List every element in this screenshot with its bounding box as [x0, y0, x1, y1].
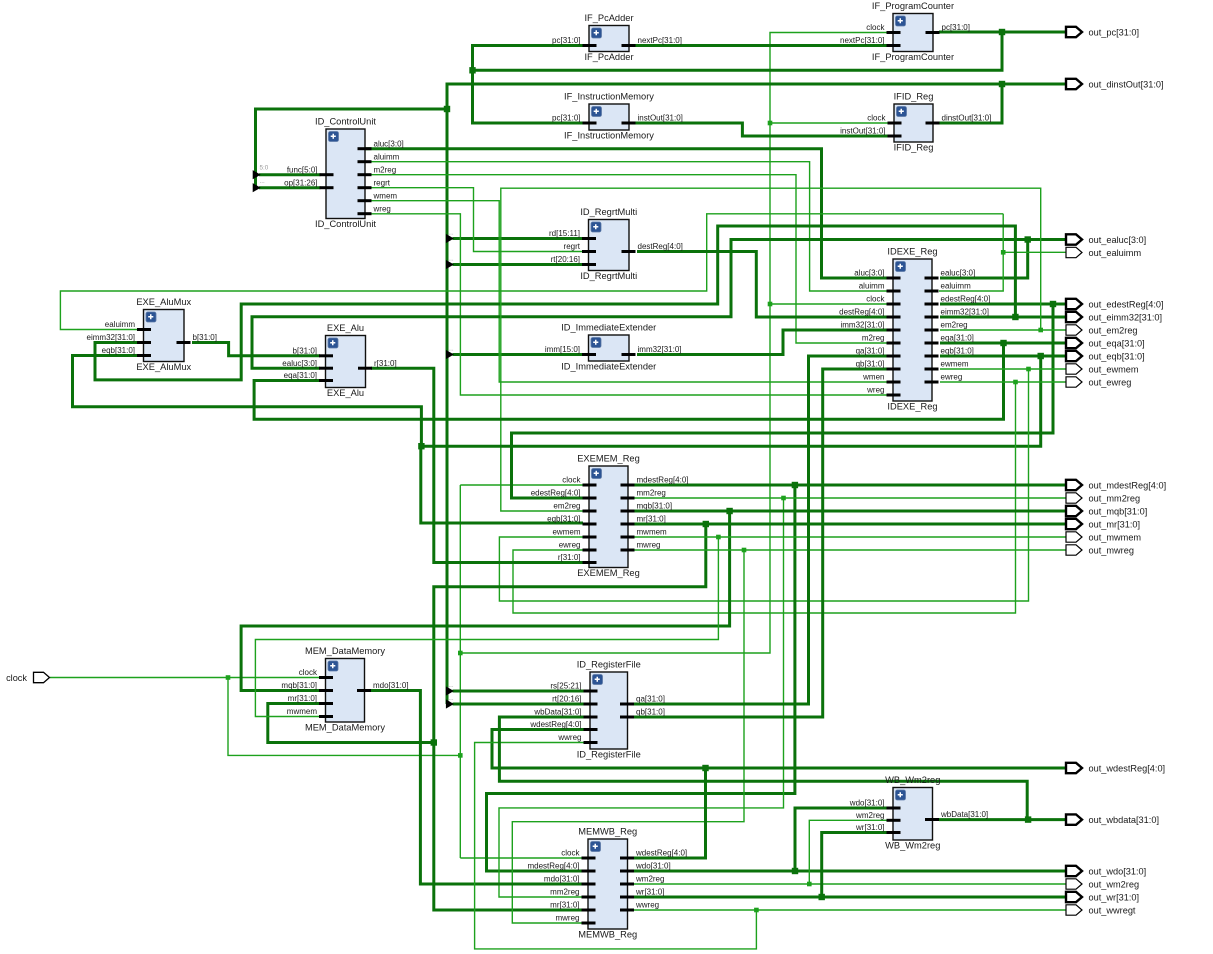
svg-text:em2reg: em2reg	[553, 502, 580, 511]
svg-text:mwmem: mwmem	[287, 707, 318, 716]
svg-text:nextPc[31:0]: nextPc[31:0]	[840, 36, 884, 45]
svg-text:qa[31:0]: qa[31:0]	[636, 695, 665, 704]
svg-text:mm2reg: mm2reg	[550, 888, 579, 897]
svg-text:IF_InstructionMemory: IF_InstructionMemory	[564, 92, 654, 102]
svg-text:out_ealuc[3:0]: out_ealuc[3:0]	[1089, 235, 1147, 245]
svg-text:eqb[31:0]: eqb[31:0]	[547, 515, 580, 524]
svg-text:m2reg: m2reg	[862, 334, 885, 343]
svg-text:mm2reg: mm2reg	[637, 489, 666, 498]
svg-text:instOut[31:0]: instOut[31:0]	[840, 127, 885, 136]
svg-text:...: ...	[448, 255, 453, 262]
svg-text:ewmem: ewmem	[941, 360, 969, 369]
svg-text:rs[25:21]: rs[25:21]	[550, 682, 581, 691]
svg-text:out_wr[31:0]: out_wr[31:0]	[1089, 892, 1140, 902]
svg-text:mr[31:0]: mr[31:0]	[637, 515, 666, 524]
svg-text:edestReg[4:0]: edestReg[4:0]	[941, 295, 991, 304]
svg-text:...: ...	[448, 682, 453, 689]
svg-text:rd[15:11]: rd[15:11]	[549, 229, 580, 238]
svg-text:qb[31:0]: qb[31:0]	[856, 360, 885, 369]
svg-text:wmem: wmem	[373, 191, 398, 200]
svg-text:r[31:0]: r[31:0]	[558, 553, 581, 562]
svg-text:aluc[3:0]: aluc[3:0]	[854, 269, 884, 278]
svg-text:...: ...	[260, 178, 265, 185]
svg-text:ewmem: ewmem	[552, 528, 580, 537]
svg-text:m2reg: m2reg	[374, 165, 397, 174]
svg-text:...: ...	[448, 229, 453, 236]
svg-text:out_mqb[31:0]: out_mqb[31:0]	[1089, 506, 1148, 516]
svg-text:mr[31:0]: mr[31:0]	[550, 901, 579, 910]
svg-text:wbData[31:0]: wbData[31:0]	[940, 810, 988, 819]
svg-text:EXE_AluMux: EXE_AluMux	[136, 297, 191, 307]
svg-text:WB_Wm2reg: WB_Wm2reg	[885, 841, 940, 851]
svg-text:regrt: regrt	[564, 242, 581, 251]
svg-text:wdo[31:0]: wdo[31:0]	[849, 799, 885, 808]
svg-text:out_mr[31:0]: out_mr[31:0]	[1089, 519, 1141, 529]
svg-text:instOut[31:0]: instOut[31:0]	[638, 114, 683, 123]
svg-text:5:0: 5:0	[260, 165, 269, 172]
svg-text:out_wdo[31:0]: out_wdo[31:0]	[1089, 866, 1147, 876]
svg-text:...: ...	[448, 695, 453, 702]
svg-text:ealuc[3:0]: ealuc[3:0]	[941, 269, 976, 278]
svg-text:wdestReg[4:0]: wdestReg[4:0]	[635, 849, 687, 858]
svg-text:clock: clock	[562, 476, 581, 485]
svg-text:IF_InstructionMemory: IF_InstructionMemory	[564, 131, 654, 141]
svg-text:wmen: wmen	[862, 373, 884, 382]
svg-text:wdo[31:0]: wdo[31:0]	[635, 862, 671, 871]
svg-text:wdestReg[4:0]: wdestReg[4:0]	[529, 720, 581, 729]
svg-text:ID_RegisterFile: ID_RegisterFile	[577, 750, 641, 760]
svg-text:mdo[31:0]: mdo[31:0]	[373, 681, 409, 690]
svg-text:clock: clock	[299, 668, 318, 677]
svg-text:IFID_Reg: IFID_Reg	[894, 92, 934, 102]
svg-text:IDEXE_Reg: IDEXE_Reg	[887, 247, 937, 257]
svg-text:pc[31:0]: pc[31:0]	[942, 23, 970, 32]
svg-text:clock: clock	[6, 673, 27, 683]
svg-text:ID_ImmediateExtender: ID_ImmediateExtender	[561, 362, 656, 372]
svg-text:out_mdestReg[4:0]: out_mdestReg[4:0]	[1089, 480, 1167, 490]
svg-text:out_eimm32[31:0]: out_eimm32[31:0]	[1089, 312, 1163, 322]
svg-text:rt[20:16]: rt[20:16]	[552, 695, 581, 704]
svg-text:aluimm: aluimm	[374, 152, 400, 161]
svg-text:ID_ImmediateExtender: ID_ImmediateExtender	[561, 323, 656, 333]
svg-text:aluimm: aluimm	[859, 282, 885, 291]
svg-text:nextPc[31:0]: nextPc[31:0]	[638, 36, 682, 45]
svg-text:mdo[31:0]: mdo[31:0]	[544, 875, 580, 884]
svg-text:MEM_DataMemory: MEM_DataMemory	[305, 723, 385, 733]
svg-text:EXE_Alu: EXE_Alu	[327, 388, 364, 398]
svg-text:out_wm2reg: out_wm2reg	[1089, 879, 1140, 889]
svg-text:IF_PcAdder: IF_PcAdder	[584, 52, 633, 62]
svg-text:EXE_Alu: EXE_Alu	[327, 323, 364, 333]
svg-text:imm32[31:0]: imm32[31:0]	[840, 321, 884, 330]
svg-text:out_mm2reg: out_mm2reg	[1089, 493, 1141, 503]
svg-text:pc[31:0]: pc[31:0]	[552, 114, 580, 123]
svg-text:out_dinstOut[31:0]: out_dinstOut[31:0]	[1089, 79, 1164, 89]
svg-text:IF_ProgramCounter: IF_ProgramCounter	[872, 1, 954, 11]
svg-text:wm2reg: wm2reg	[635, 875, 664, 884]
svg-text:MEMWB_Reg: MEMWB_Reg	[578, 827, 637, 837]
svg-text:wreg: wreg	[866, 386, 884, 395]
svg-text:EXE_AluMux: EXE_AluMux	[136, 362, 191, 372]
svg-text:pc[31:0]: pc[31:0]	[552, 36, 580, 45]
svg-text:mqb[31:0]: mqb[31:0]	[637, 502, 673, 511]
svg-text:eqa[31:0]: eqa[31:0]	[284, 371, 317, 380]
svg-text:ewreg: ewreg	[559, 541, 581, 550]
svg-text:IF_PcAdder: IF_PcAdder	[584, 13, 633, 23]
svg-text:em2reg: em2reg	[941, 321, 968, 330]
svg-text:MEM_DataMemory: MEM_DataMemory	[305, 646, 385, 656]
svg-text:edestReg[4:0]: edestReg[4:0]	[531, 489, 581, 498]
svg-text:wreg: wreg	[373, 204, 391, 213]
svg-text:IFID_Reg: IFID_Reg	[894, 143, 934, 153]
svg-text:clock: clock	[867, 114, 886, 123]
svg-text:out_pc[31:0]: out_pc[31:0]	[1089, 27, 1140, 37]
svg-text:clock: clock	[866, 295, 885, 304]
svg-text:out_eqb[31:0]: out_eqb[31:0]	[1089, 351, 1145, 361]
svg-text:ealuc[3:0]: ealuc[3:0]	[282, 359, 317, 368]
svg-text:out_em2reg: out_em2reg	[1089, 325, 1138, 335]
svg-text:eqb[31:0]: eqb[31:0]	[102, 346, 135, 355]
svg-text:ealuimm: ealuimm	[941, 282, 972, 291]
svg-text:imm[15:0]: imm[15:0]	[545, 345, 580, 354]
svg-text:out_ealuimm: out_ealuimm	[1089, 248, 1142, 258]
svg-text:clock: clock	[561, 849, 580, 858]
svg-text:EXEMEM_Reg: EXEMEM_Reg	[577, 568, 640, 578]
svg-text:imm32[31:0]: imm32[31:0]	[638, 345, 682, 354]
svg-text:qa[31:0]: qa[31:0]	[856, 347, 885, 356]
svg-text:MEMWB_Reg: MEMWB_Reg	[578, 930, 637, 940]
svg-text:mwreg: mwreg	[637, 541, 661, 550]
svg-text:out_wbdata[31:0]: out_wbdata[31:0]	[1089, 815, 1160, 825]
svg-text:ID_ControlUnit: ID_ControlUnit	[315, 219, 376, 229]
svg-text:out_mwreg: out_mwreg	[1089, 545, 1134, 555]
svg-text:ID_RegisterFile: ID_RegisterFile	[577, 660, 641, 670]
svg-text:EXEMEM_Reg: EXEMEM_Reg	[577, 454, 640, 464]
svg-text:eimm32[31:0]: eimm32[31:0]	[941, 308, 989, 317]
svg-text:func[5:0]: func[5:0]	[287, 165, 318, 174]
svg-text:mr[31:0]: mr[31:0]	[288, 694, 317, 703]
svg-text:regrt: regrt	[374, 178, 391, 187]
svg-text:wr[31:0]: wr[31:0]	[855, 823, 884, 832]
svg-text:eqb[31:0]: eqb[31:0]	[941, 347, 974, 356]
svg-text:dinstOut[31:0]: dinstOut[31:0]	[942, 114, 992, 123]
svg-text:ID_RegrtMulti: ID_RegrtMulti	[580, 207, 637, 217]
svg-text:destReg[4:0]: destReg[4:0]	[638, 242, 683, 251]
svg-text:IF_ProgramCounter: IF_ProgramCounter	[872, 52, 954, 62]
svg-text:out_ewreg: out_ewreg	[1089, 377, 1132, 387]
svg-text:wr[31:0]: wr[31:0]	[635, 888, 664, 897]
svg-text:b[31:0]: b[31:0]	[293, 346, 317, 355]
svg-text:ID_ControlUnit: ID_ControlUnit	[315, 117, 376, 127]
svg-text:mdestReg[4:0]: mdestReg[4:0]	[527, 862, 579, 871]
svg-text:qb[31:0]: qb[31:0]	[636, 708, 665, 717]
svg-text:out_eqa[31:0]: out_eqa[31:0]	[1089, 338, 1145, 348]
svg-text:WB_Wm2reg: WB_Wm2reg	[885, 775, 940, 785]
svg-text:wwreg: wwreg	[557, 733, 581, 742]
svg-text:eqa[31:0]: eqa[31:0]	[941, 334, 974, 343]
svg-text:out_wwregt: out_wwregt	[1089, 905, 1136, 915]
svg-text:...: ...	[448, 345, 453, 352]
svg-text:out_ewmem: out_ewmem	[1089, 364, 1139, 374]
svg-text:mwmem: mwmem	[637, 528, 668, 537]
svg-text:eimm32[31:0]: eimm32[31:0]	[87, 333, 135, 342]
svg-text:b[31:0]: b[31:0]	[193, 333, 217, 342]
svg-text:ewreg: ewreg	[941, 373, 963, 382]
svg-text:ealuimm: ealuimm	[105, 320, 136, 329]
svg-text:op[31:26]: op[31:26]	[284, 178, 317, 187]
svg-text:out_mwmem: out_mwmem	[1089, 532, 1142, 542]
svg-text:clock: clock	[866, 23, 885, 32]
svg-text:out_wdestReg[4:0]: out_wdestReg[4:0]	[1089, 763, 1166, 773]
svg-text:aluc[3:0]: aluc[3:0]	[374, 139, 404, 148]
svg-text:mwreg: mwreg	[555, 914, 579, 923]
svg-text:mdestReg[4:0]: mdestReg[4:0]	[637, 476, 689, 485]
svg-text:destReg[4:0]: destReg[4:0]	[839, 308, 884, 317]
svg-text:IDEXE_Reg: IDEXE_Reg	[887, 402, 937, 412]
svg-text:rt[20:16]: rt[20:16]	[551, 255, 580, 264]
svg-text:wwreg: wwreg	[635, 901, 659, 910]
svg-text:ID_RegrtMulti: ID_RegrtMulti	[580, 271, 637, 281]
svg-text:wbData[31:0]: wbData[31:0]	[533, 708, 581, 717]
svg-text:mqb[31:0]: mqb[31:0]	[281, 681, 317, 690]
svg-text:wm2reg: wm2reg	[855, 811, 884, 820]
svg-text:r[31:0]: r[31:0]	[374, 359, 397, 368]
svg-text:out_edestReg[4:0]: out_edestReg[4:0]	[1089, 299, 1164, 309]
